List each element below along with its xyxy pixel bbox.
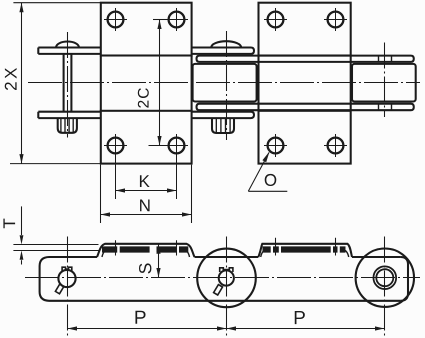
pin P2 dome head [211,41,241,47]
pin P3 centerline (side) [384,237,386,338]
label P left [135,311,145,324]
dimension P (right span) [227,328,385,330]
attachment plate upper-left [101,3,192,56]
dimension T [13,206,99,264]
label S [139,263,151,273]
inner link plate bottom bar (top view) [197,104,414,111]
link plate outline (side view) [40,257,49,301]
label O [265,174,277,186]
pin P3 vertical centerline [384,43,386,118]
label 2X [5,68,17,90]
tab 2 hole centerline ticks [276,238,336,256]
cotter pin head at P2 [220,268,233,272]
chain horizontal centerline [28,82,420,84]
dimension N [101,214,192,216]
plate top edge segments [49,256,401,258]
roller R1 (top view) [193,64,257,102]
attachment plate lower-left [101,111,192,164]
inner link plate top bar (top view) [197,56,414,62]
pin P2 centerline (side) [226,237,228,338]
dimension S [158,244,160,277]
bolt hole B4 [324,134,347,157]
pin P1 riveted end (knurl) [58,118,77,133]
outer link plate bottom bar (top view) [38,112,101,118]
label N [140,200,150,212]
bushing circle at P3 [373,266,396,289]
attachment tab 2 (side view, bent lip) [258,244,352,257]
pin P2 circle (side view) [219,270,234,285]
bolt hole A1 [104,8,127,31]
tab 1 hole centerline ticks [116,240,177,255]
dimension 2X [10,3,101,164]
pin P2 riveted end (knurl) [212,118,234,133]
leader O [248,153,287,192]
dimension P (left span) [68,328,227,330]
bushing ticks at pin P3 [379,56,392,111]
label 2C [138,88,149,107]
cotter pin leg at P2 [214,285,223,295]
bolt hole B2 [324,8,347,31]
outer link plate top bar (top view) [38,48,101,54]
label T [3,219,15,229]
dimension N extension lines [101,165,192,223]
bolt hole A3 [104,134,127,199]
pin P1 vertical centerline [67,32,69,138]
roller R1 circle (side view) [197,249,256,308]
attachment plate side edges (bent web, top view) [101,56,351,111]
pin P2 vertical centerline [226,31,228,140]
roller R2 circle (side view) [356,249,414,307]
tab 1 hidden hole band [102,246,188,252]
pin circle at P3 [376,269,393,286]
pin P1 shaft lines [64,54,72,112]
cotter pin leg at P1 [55,284,64,294]
roller R2 (top view) [352,64,416,102]
label K [140,175,150,187]
bolt hole B1 [264,8,287,31]
pin P1 dome head [56,42,79,48]
bolt hole A2 [165,8,188,31]
side view chain centerline [25,277,420,279]
cotter pin head at P1 [62,267,72,271]
bolt hole A4 [165,134,188,199]
attachment plate upper-right [259,3,351,56]
dimension K [116,190,177,192]
plate bottom edge [49,300,401,302]
attachment plate lower-right [259,111,351,164]
attachment tab 1 (side view, bent lip) [97,244,195,257]
tab 2 hidden hole band [263,246,346,252]
pin P1 centerline (side) [67,237,69,338]
plate right end cap [401,257,408,301]
label P right [295,311,305,324]
bolt hole B3 [264,134,287,157]
pin P1 circle (side view) [58,270,75,287]
dimension 2C [149,20,170,146]
